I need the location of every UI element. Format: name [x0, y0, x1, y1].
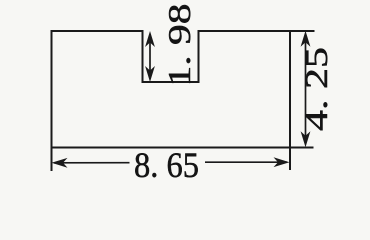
svg-text:8. 65: 8. 65 [134, 145, 199, 185]
wire notch right wall [198, 30, 200, 83]
shape outline: rectangle with top notch [51, 30, 315, 171]
arrowhead 8.65 right [274, 157, 290, 167]
dimension 8.65 line left segment [54, 162, 130, 164]
dimension 8.65 line right segment [205, 161, 287, 163]
arrowhead 4.25 down [301, 131, 311, 147]
arrowhead 1.98 up [145, 31, 155, 47]
wire left edge (with extension below) [51, 30, 53, 171]
wire top edge left segment [51, 30, 144, 32]
arrowhead 8.65 left [52, 158, 68, 168]
dimension 4.25 vertical line [305, 34, 307, 144]
wire notch left wall [142, 30, 144, 83]
wire top edge right segment (with extension past right edge) [198, 30, 315, 32]
wire bottom edge (with extension to the right) [51, 147, 314, 149]
wire notch bottom [142, 81, 200, 83]
arrowhead 1.98 down [145, 66, 155, 82]
arrowhead 4.25 up [301, 31, 311, 47]
svg-text:1. 98: 1. 98 [161, 4, 197, 87]
dimension 1.98 double arrow (notch depth) [149, 34, 151, 79]
wire right edge (with extension below) [289, 30, 291, 170]
svg-text:4. 25: 4. 25 [298, 47, 334, 131]
